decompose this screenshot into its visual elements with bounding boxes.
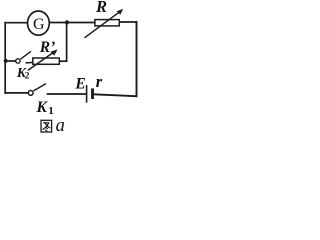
svg-text:R: R [95, 0, 107, 16]
svg-text:R’: R’ [39, 39, 56, 56]
svg-text:a: a [56, 116, 65, 136]
svg-text:2: 2 [25, 71, 30, 81]
svg-text:r: r [96, 72, 103, 91]
svg-text:K: K [36, 99, 49, 116]
svg-text:E: E [74, 75, 85, 92]
svg-text:G: G [33, 16, 45, 33]
svg-text:1: 1 [48, 105, 54, 117]
